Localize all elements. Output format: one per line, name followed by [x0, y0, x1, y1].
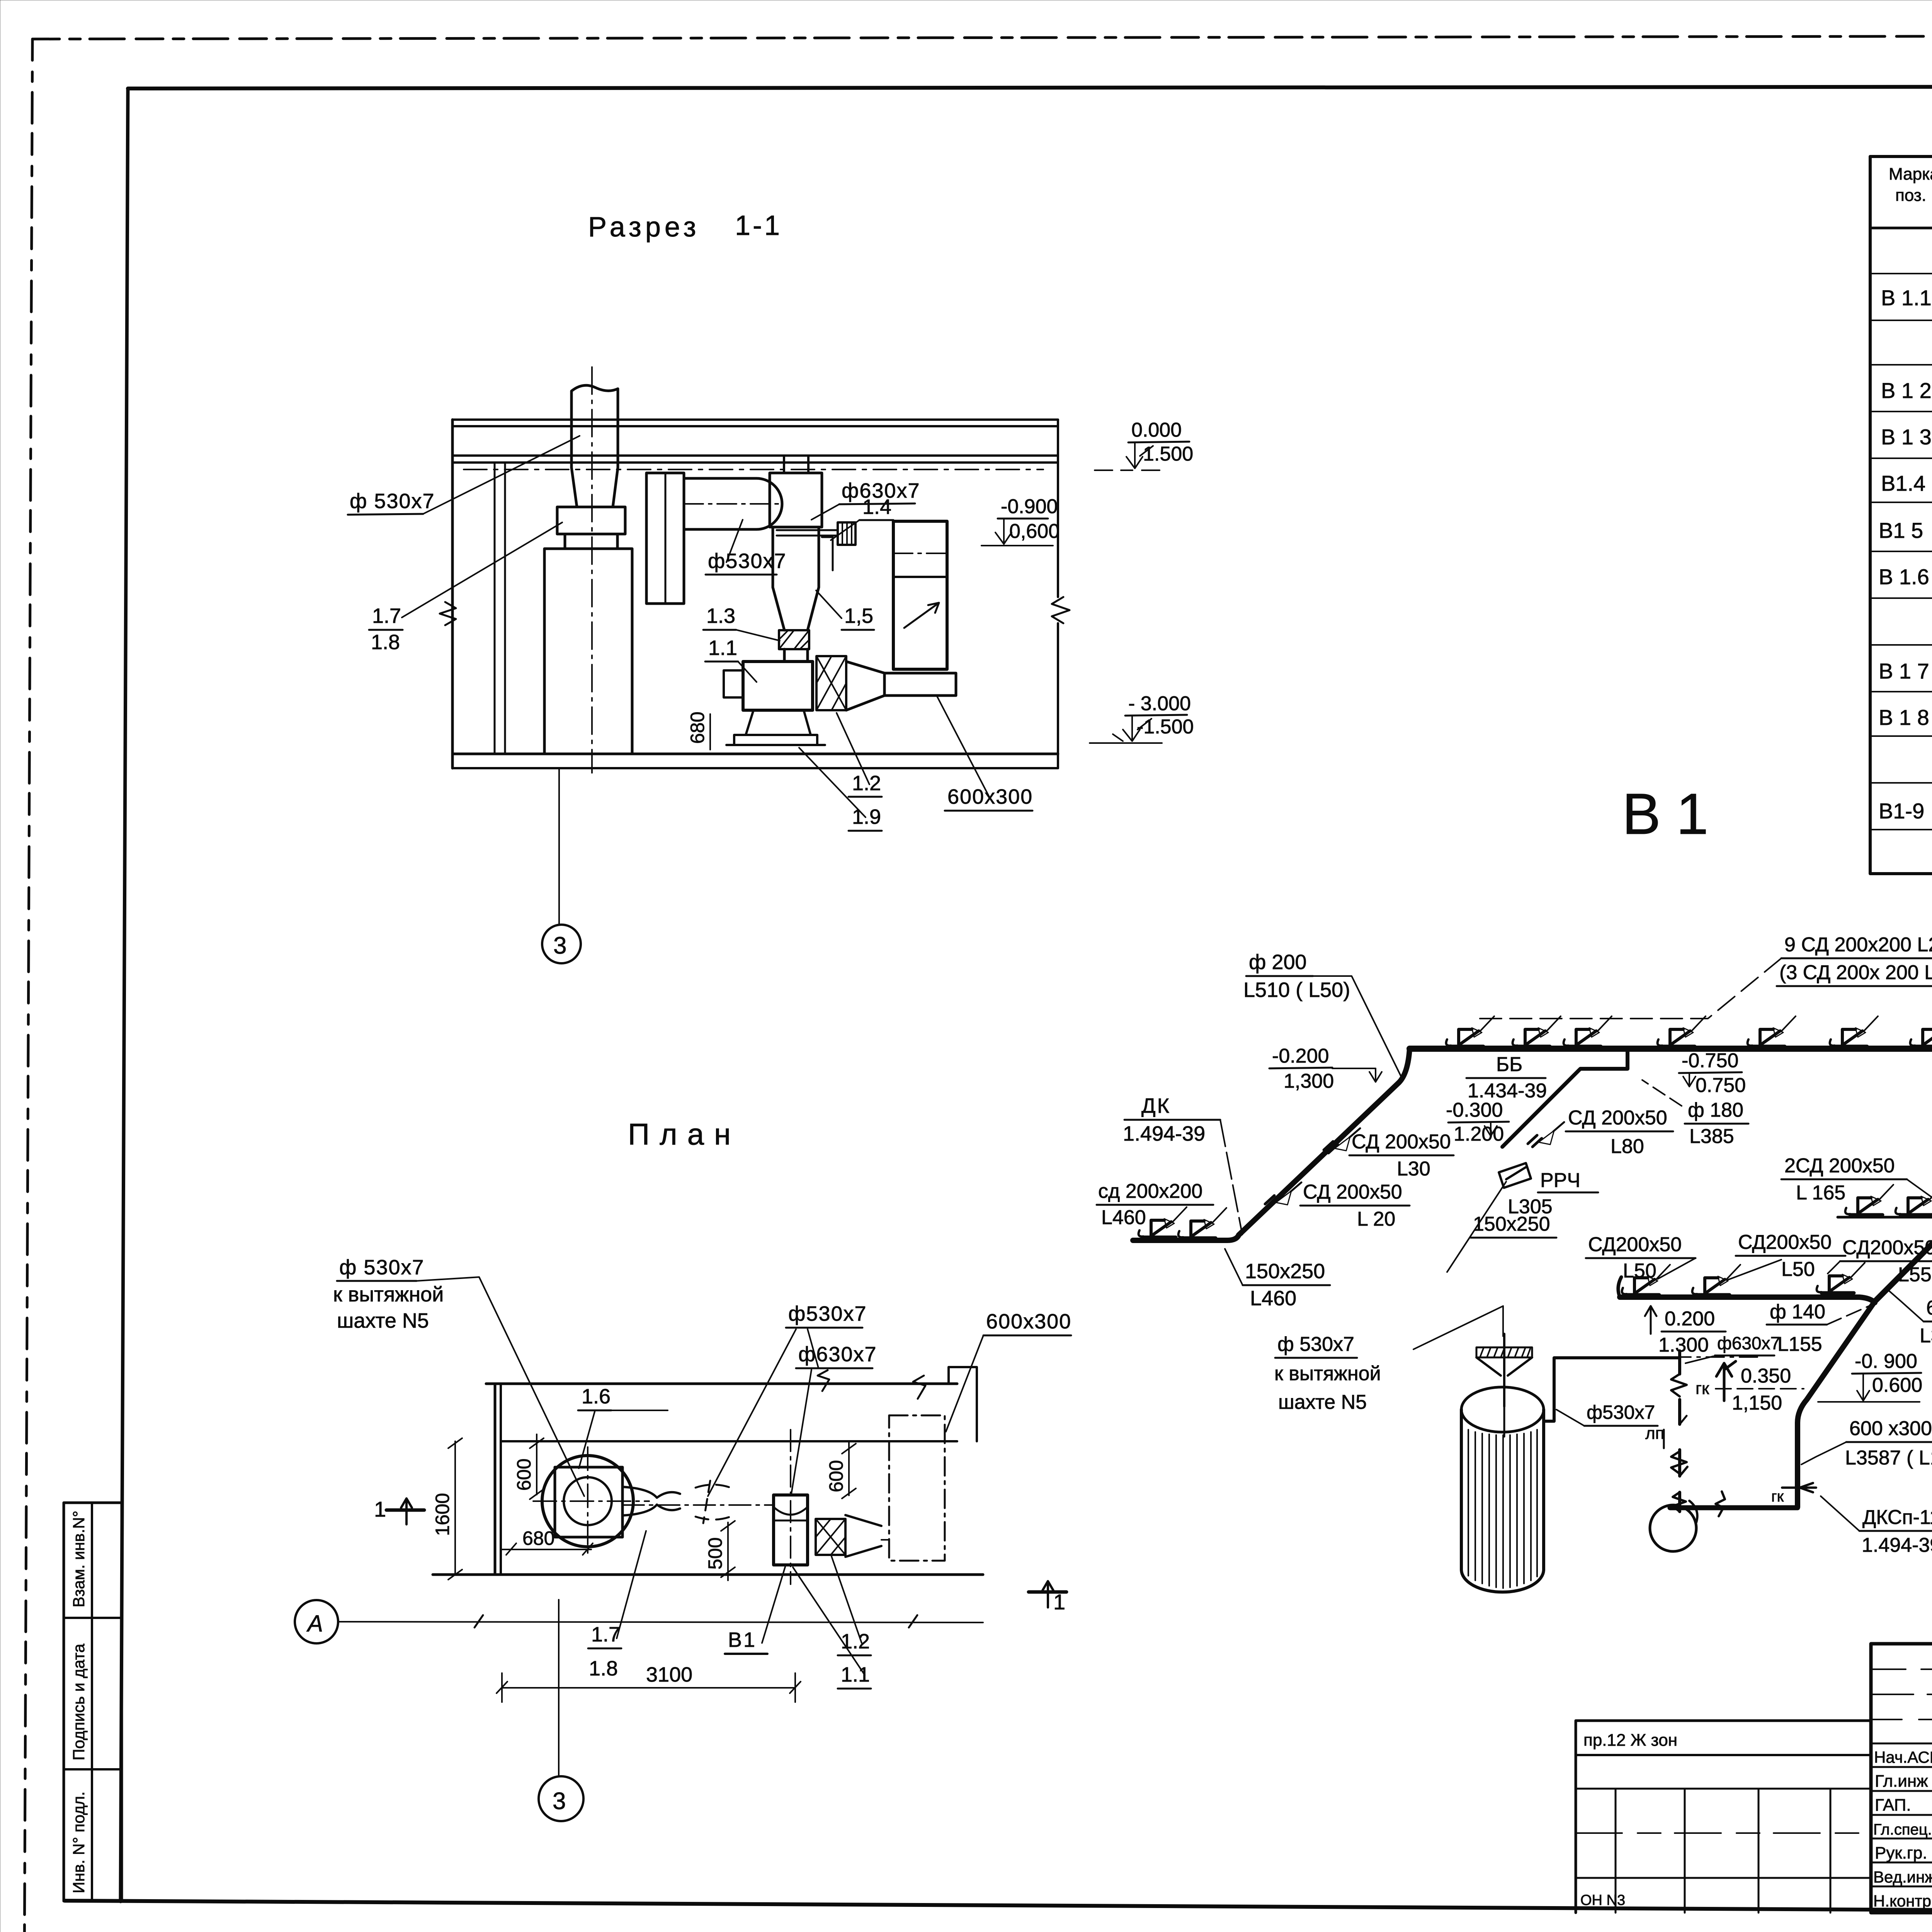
svg-text:600 х 300: 600 х 300: [1926, 1297, 1932, 1319]
title block outer: [1871, 1644, 1932, 1913]
duct taper: [773, 587, 819, 630]
svg-text:1: 1: [374, 1497, 386, 1521]
svg-text:-0.200: -0.200: [1272, 1045, 1329, 1067]
stack flange 1.8: [557, 507, 625, 534]
svg-text:0.000: 0.000: [1131, 419, 1182, 441]
svg-text:ф 530х7: ф 530х7: [350, 490, 435, 513]
svg-text:ДКСп-11: ДКСп-11: [1862, 1506, 1932, 1529]
vertical centre dash through B1: [790, 1430, 791, 1584]
svg-text:1-1: 1-1: [735, 210, 782, 241]
fan feet: [746, 710, 811, 735]
svg-text:ДК: ДК: [1141, 1094, 1171, 1117]
hidden flexible joint dashes: [696, 1485, 736, 1490]
left branch duct horizontal: [1133, 1235, 1239, 1240]
svg-text:План: План: [628, 1117, 741, 1151]
svg-text:L55: L55: [1898, 1264, 1932, 1286]
left wall break mark: [440, 602, 456, 625]
flex insert hatched: [816, 1519, 845, 1555]
pipe from cylinder: [1545, 1358, 1679, 1421]
short duct below insert: [784, 649, 808, 662]
outer dashed border top: [32, 35, 1932, 39]
svg-text:3100: 3100: [646, 1663, 692, 1686]
svg-text:- 3.000: - 3.000: [1128, 692, 1191, 715]
svg-text:L510 ( L50): L510 ( L50): [1243, 978, 1350, 1002]
svg-text:1.1: 1.1: [708, 636, 737, 660]
svg-text:Марка.: Марка.: [1889, 165, 1932, 184]
svg-text:Рук.гр.: Рук.гр.: [1875, 1844, 1927, 1862]
break squiggle: [1716, 1492, 1725, 1516]
leader line to circle 3: [558, 769, 560, 924]
cylinder hatch: [1468, 1430, 1537, 1588]
capsule centre dash: [684, 503, 781, 505]
branch BB riser: [1502, 1051, 1628, 1147]
left extension table: [1576, 1721, 1871, 1913]
svg-text:2СД 200х50: 2СД 200х50: [1784, 1155, 1895, 1177]
stack neck: [565, 534, 617, 549]
svg-text:1: 1: [1053, 1590, 1065, 1614]
svg-text:СД200х50: СД200х50: [1738, 1231, 1832, 1253]
svg-text:СД200х50: СД200х50: [1842, 1236, 1932, 1259]
dashed leaders to diffusers: [1480, 958, 1781, 1019]
expansion chamber cylinder: [1461, 1410, 1544, 1570]
diffusers on main duct: [1446, 1016, 1494, 1046]
arrow inside box: [904, 603, 939, 628]
svg-text:к вытяжной: к вытяжной: [333, 1283, 444, 1306]
flexible capsule duct: [684, 478, 782, 529]
expansion box right 1.5: [893, 521, 947, 669]
svg-text:L3587 ( L1647): L3587 ( L1647): [1845, 1447, 1932, 1469]
svg-text:шахте N5: шахте N5: [1278, 1391, 1367, 1413]
svg-text:1.500: 1.500: [1143, 443, 1193, 465]
svg-text:Нач.АСК.1: Нач.АСК.1: [1874, 1748, 1932, 1766]
right wall upper: [1057, 420, 1059, 597]
taper to duct: [845, 1515, 881, 1557]
main diagonal duct down-left: [1239, 1083, 1399, 1235]
flex insert 1.2 hatched: [816, 656, 846, 710]
svg-text:ГАП.: ГАП.: [1875, 1796, 1911, 1815]
svg-text:ф 180: ф 180: [1688, 1099, 1743, 1121]
main duct horizontal: [1410, 1046, 1932, 1052]
mast through cylinder: [1503, 1387, 1505, 1437]
wall top line: [486, 1383, 957, 1385]
flow arrow into duct: [1782, 1483, 1816, 1492]
svg-text:Подпись и дата: Подпись и дата: [70, 1643, 88, 1760]
leader f530x7: [423, 436, 580, 514]
svg-text:В 1 7: В 1 7: [1879, 659, 1929, 683]
riser with flex inserts: [1678, 1351, 1681, 1512]
svg-text:к вытяжной: к вытяжной: [1274, 1362, 1381, 1385]
bottom wall line: [433, 1573, 983, 1576]
svg-text:РРЧ: РРЧ: [1540, 1169, 1580, 1192]
duct centre dash line: [622, 1504, 774, 1506]
exhaust shaft leader: [1413, 1306, 1503, 1349]
diffuser taper: [846, 662, 884, 710]
svg-text:шахте N5: шахте N5: [337, 1309, 429, 1332]
fan V1 body 1.1: [743, 662, 813, 710]
svg-text:0,600: 0,600: [1009, 520, 1060, 543]
svg-text:ф630х7: ф630х7: [1717, 1333, 1780, 1353]
svg-text:600 х300: 600 х300: [1849, 1417, 1932, 1440]
lower horizontal duct: [1620, 1297, 1875, 1303]
dim 500: [727, 1522, 729, 1580]
svg-text:L50: L50: [1781, 1258, 1815, 1281]
svg-text:Н.контр.: Н.контр.: [1873, 1892, 1932, 1910]
floor lines: [452, 753, 1058, 755]
vertical duct 630 upper: [770, 473, 822, 527]
svg-text:1600: 1600: [432, 1493, 453, 1536]
spec table outer: [1870, 156, 1932, 874]
svg-text:В1: В1: [1622, 781, 1724, 846]
dim line 600 left: [536, 1434, 537, 1495]
fan inlet box left: [724, 670, 743, 697]
svg-text:Инв. N° подл.: Инв. N° подл.: [70, 1791, 88, 1893]
svg-text:В 1 8: В 1 8: [1879, 705, 1929, 730]
leader 1.7-1.8: [402, 522, 562, 617]
trumpet duct: [622, 1487, 657, 1515]
section mark 1 left: [386, 1509, 424, 1512]
svg-text:1.2: 1.2: [841, 1630, 870, 1653]
valve handle 1.4: [777, 530, 838, 536]
svg-text:L 20: L 20: [1357, 1208, 1395, 1230]
svg-text:-1.500: -1.500: [1137, 716, 1194, 738]
svg-text:гк: гк: [1696, 1379, 1709, 1398]
stack centre line: [591, 367, 593, 773]
big diagonal from junction: [1875, 1102, 1932, 1301]
svg-text:1,300: 1,300: [1284, 1070, 1334, 1092]
diffusers on L165 branch: [1845, 1185, 1893, 1215]
svg-text:150х250: 150х250: [1473, 1213, 1550, 1235]
svg-text:-0.750: -0.750: [1682, 1049, 1738, 1072]
fan square casing: [555, 1467, 622, 1537]
dim line 1600: [454, 1441, 456, 1575]
header row line: [1870, 227, 1932, 230]
svg-text:-0. 900: -0. 900: [1855, 1350, 1917, 1372]
inner frame bottom: [65, 1901, 1932, 1914]
signature rows: [1871, 1743, 1932, 1745]
svg-text:L50: L50: [1623, 1260, 1656, 1282]
svg-text:680: 680: [522, 1527, 554, 1549]
svg-text:В1.4: В1.4: [1881, 471, 1925, 495]
row lines: [1870, 273, 1932, 274]
svg-text:СД 200х50: СД 200х50: [1303, 1181, 1402, 1203]
svg-text:ББ: ББ: [1496, 1053, 1522, 1076]
svg-text:1.8: 1.8: [589, 1657, 618, 1680]
umbrella mast: [1503, 1334, 1505, 1406]
ceiling slab top lines: [452, 418, 1058, 421]
svg-text:В 1.6: В 1.6: [1879, 565, 1929, 589]
fan circle inner: [564, 1477, 612, 1525]
svg-text:9 СД 200х200 L2217: 9 СД 200х200 L2217: [1784, 934, 1932, 956]
circle mark 3: [539, 1776, 583, 1821]
fan scroll circle: [1650, 1505, 1696, 1551]
fan connection duct: [1798, 1301, 1875, 1507]
svg-text:1,5: 1,5: [844, 604, 873, 628]
dim 680: [501, 1549, 591, 1550]
svg-text:сд 200х200: сд 200х200: [1098, 1180, 1202, 1202]
plenum box on floor: [544, 549, 632, 754]
left end jog to diagonal: [1399, 1049, 1410, 1083]
outer dashed border left: [24, 39, 32, 1932]
svg-text:-0.900: -0.900: [1001, 495, 1058, 518]
svg-text:L3432( L 1492): L3432( L 1492): [1920, 1325, 1932, 1347]
svg-text:600: 600: [513, 1459, 535, 1491]
diffusers on lower duct: [1622, 1265, 1670, 1295]
svg-text:-0.300: -0.300: [1446, 1099, 1503, 1121]
svg-text:680: 680: [687, 712, 708, 744]
svg-text:ф 530х7: ф 530х7: [339, 1256, 425, 1279]
tick: [1680, 1416, 1687, 1424]
RRCh damper symbol: [1499, 1163, 1531, 1188]
svg-text:(3 СД 200х 200 L737): (3 СД 200х 200 L737): [1779, 961, 1932, 984]
ceiling centre dash line: [464, 469, 1043, 470]
svg-text:1.494-39: 1.494-39: [1123, 1122, 1205, 1145]
svg-text:0.350: 0.350: [1741, 1365, 1791, 1387]
diffuser on left branch 2: [1179, 1208, 1226, 1238]
svg-text:1.494-39: 1.494-39: [1862, 1534, 1932, 1556]
flex zigzag gk: [1671, 1374, 1687, 1396]
svg-text:3: 3: [553, 932, 566, 959]
svg-text:0.750: 0.750: [1696, 1074, 1746, 1097]
thin branch duct L165: [1838, 1216, 1932, 1219]
svg-text:600х300: 600х300: [986, 1310, 1071, 1333]
diffuser on left branch: [1139, 1207, 1187, 1237]
svg-text:В 1 2: В 1 2: [1881, 378, 1932, 403]
svg-text:ф530х7: ф530х7: [1587, 1401, 1655, 1423]
inner frame top: [128, 86, 1932, 88]
svg-text:гк: гк: [1771, 1488, 1784, 1505]
level up arrow 0.350/1.150: [1716, 1361, 1736, 1401]
wall grille arrow SD200x50 L80: [1528, 1122, 1564, 1147]
svg-text:ф 140: ф 140: [1770, 1301, 1825, 1323]
svg-text:600: 600: [825, 1460, 847, 1492]
svg-text:СД 200х50: СД 200х50: [1568, 1107, 1667, 1129]
svg-text:ф 530х7: ф 530х7: [1277, 1333, 1354, 1355]
svg-text:L80: L80: [1611, 1135, 1644, 1158]
svg-text:СД200х50: СД200х50: [1588, 1233, 1682, 1256]
fan inlet horizontal: [1670, 1505, 1798, 1510]
svg-text:поз.: поз.: [1895, 186, 1926, 205]
margin stamp boxes: [64, 1503, 122, 1901]
svg-text:1,150: 1,150: [1732, 1392, 1782, 1414]
svg-text:1.2: 1.2: [852, 772, 881, 795]
leader DK to duct: [1220, 1120, 1242, 1235]
upper dashed rows: [1871, 1668, 1932, 1670]
svg-text:L385: L385: [1689, 1125, 1734, 1148]
svg-text:В 1 3: В 1 3: [1881, 425, 1932, 449]
svg-text:Гл.инж: Гл.инж: [1875, 1772, 1928, 1791]
wall inner line: [501, 1440, 957, 1442]
leader to circle 3: [558, 1600, 560, 1776]
corner piece right: [949, 1367, 977, 1441]
axis circle A: [295, 1600, 338, 1643]
svg-text:600х300: 600х300: [947, 785, 1033, 808]
svg-text:А: А: [306, 1611, 323, 1636]
svg-text:Разрез: Разрез: [588, 212, 700, 243]
interior column lines: [494, 463, 496, 754]
svg-text:В1-9: В1-9: [1879, 799, 1924, 823]
section mark 1 right: [1029, 1590, 1066, 1594]
flex insert 1.3 hatched: [779, 630, 809, 649]
exhaust stack 1.7: [571, 385, 618, 507]
left upturn: [1618, 1277, 1621, 1297]
svg-text:1.1: 1.1: [841, 1663, 870, 1686]
ceiling slab bottom lines: [452, 454, 1058, 457]
svg-text:ф530х7: ф530х7: [708, 549, 787, 573]
svg-text:L460: L460: [1250, 1287, 1296, 1310]
svg-text:Вед.инж.: Вед.инж.: [1873, 1868, 1932, 1886]
svg-text:500: 500: [704, 1537, 726, 1570]
svg-text:0.600: 0.600: [1872, 1374, 1922, 1396]
svg-text:ф530х7: ф530х7: [788, 1302, 867, 1325]
wall grille arrow SD200x50 L30: [1324, 1128, 1360, 1153]
svg-text:Гл.спец.ОВ: Гл.спец.ОВ: [1873, 1821, 1932, 1838]
svg-text:Взам. инв.N°: Взам. инв.N°: [70, 1510, 88, 1607]
svg-text:В1 5: В1 5: [1879, 518, 1923, 543]
svg-text:L 165: L 165: [1796, 1182, 1845, 1204]
left wall: [451, 420, 454, 768]
right wall lower: [1057, 623, 1059, 768]
fan circle outer: [542, 1456, 633, 1547]
svg-text:3: 3: [553, 1788, 566, 1815]
leaders from pipe labels: [708, 1329, 818, 1496]
inner frame left: [121, 88, 128, 1901]
circle mark 3: [542, 925, 581, 963]
svg-text:СД 200х50: СД 200х50: [1352, 1131, 1451, 1153]
wall grille arrow SD200x50 L20: [1265, 1182, 1301, 1207]
dim 600 right: [848, 1441, 850, 1495]
svg-text:1.300: 1.300: [1658, 1334, 1709, 1356]
svg-text:В1: В1: [728, 1628, 757, 1651]
flex zigzag lp: [1671, 1451, 1687, 1476]
vertical panel: [646, 473, 684, 604]
hidden duct 600x300 dash-dot rect: [889, 1415, 945, 1561]
svg-text:150х250: 150х250: [1245, 1260, 1325, 1283]
roof umbrella hatched: [1476, 1347, 1532, 1357]
fan base plate: [734, 735, 817, 745]
svg-text:L460: L460: [1101, 1206, 1146, 1229]
valve knob: [838, 522, 855, 545]
svg-text:L155: L155: [1777, 1333, 1822, 1355]
svg-text:1.7: 1.7: [591, 1623, 620, 1646]
fan crosshair: [533, 1500, 649, 1502]
svg-text:В 1.1: В 1.1: [1881, 286, 1932, 310]
svg-text:1.8: 1.8: [371, 631, 400, 654]
svg-text:1.4: 1.4: [862, 495, 891, 519]
svg-text:0.200: 0.200: [1665, 1308, 1715, 1330]
level 0.200/1.300 lower: [1645, 1306, 1656, 1334]
left wall double line: [494, 1384, 497, 1575]
svg-text:L30: L30: [1397, 1158, 1430, 1180]
side stub on duct: [822, 537, 833, 570]
svg-text:ф 200: ф 200: [1249, 951, 1307, 974]
svg-text:лп: лп: [1645, 1424, 1665, 1443]
B1 fan square: [774, 1495, 808, 1565]
duct 600x300: [884, 673, 956, 696]
svg-text:1.3: 1.3: [706, 604, 735, 628]
svg-text:ф630х7: ф630х7: [798, 1343, 877, 1366]
svg-text:ОН N3: ОН N3: [1580, 1892, 1625, 1908]
duct mid section: [773, 527, 819, 587]
svg-text:1.6: 1.6: [582, 1385, 611, 1408]
axis line: [338, 1622, 983, 1622]
svg-text:1.7: 1.7: [372, 604, 401, 628]
svg-text:пр.12 Ж зон: пр.12 Ж зон: [1583, 1731, 1677, 1750]
top wall break mark: [818, 1370, 829, 1391]
right wall break mark: [1052, 597, 1070, 623]
duct stub to ceiling: [784, 456, 808, 473]
